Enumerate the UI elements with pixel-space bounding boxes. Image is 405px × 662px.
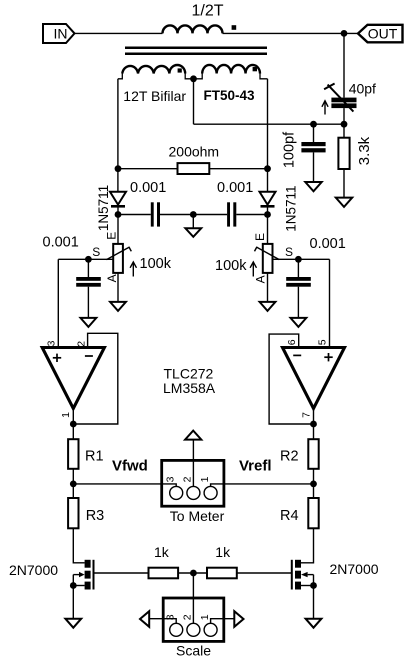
node rail left <box>115 165 122 172</box>
capacitor 100pf <box>281 124 325 182</box>
inductor 1/2T primary winding <box>163 3 224 34</box>
transformer core <box>125 48 267 54</box>
svg-text:R3: R3 <box>86 508 105 524</box>
wire feedback right <box>269 334 313 424</box>
wire right secondary branch <box>267 79 269 192</box>
svg-text:FT50-43: FT50-43 <box>204 88 256 103</box>
svg-text:1: 1 <box>60 412 72 418</box>
phase dot primary <box>232 25 237 30</box>
node output right <box>310 421 317 428</box>
wire pot A right to ground <box>267 273 269 302</box>
resistor R1 <box>68 439 103 469</box>
svg-text:0.001: 0.001 <box>217 180 253 196</box>
svg-text:S: S <box>92 245 100 259</box>
wire S left node <box>58 259 113 347</box>
wire left secondary branch <box>117 79 119 192</box>
svg-text:100k: 100k <box>140 256 172 272</box>
svg-text:1k: 1k <box>215 544 231 560</box>
wire S right node <box>273 259 330 347</box>
ground Q2 <box>306 619 322 628</box>
svg-text:A: A <box>254 275 268 283</box>
wire Q1 gate <box>94 572 149 574</box>
svg-text:E: E <box>253 233 267 241</box>
svg-text:2: 2 <box>182 614 194 620</box>
svg-text:1k: 1k <box>154 544 170 560</box>
ground 100pf <box>305 182 321 191</box>
connector Scale <box>163 598 224 659</box>
svg-text:40pf: 40pf <box>349 81 376 97</box>
svg-text:1N5711: 1N5711 <box>283 185 298 231</box>
wire center ground stem <box>192 215 194 229</box>
resistor R4 <box>280 498 319 528</box>
svg-text:1N5711: 1N5711 <box>96 185 111 231</box>
diode D2 1N5711 right <box>260 185 299 231</box>
resistor 1k right <box>207 544 237 578</box>
svg-text:0.001: 0.001 <box>310 236 346 252</box>
node Vrefl <box>310 481 317 488</box>
transistor Q1 2N7000 left <box>9 560 94 590</box>
wire detector left <box>118 214 151 216</box>
svg-text:2: 2 <box>75 341 87 347</box>
svg-text:0.001: 0.001 <box>130 180 166 196</box>
svg-text:S: S <box>285 245 293 259</box>
wire output right <box>313 409 315 440</box>
ground left S cap <box>81 318 97 327</box>
potentiometer 100k right <box>215 233 293 283</box>
node output left <box>70 421 77 428</box>
svg-text:2: 2 <box>182 476 194 482</box>
wire Vrefl to meter <box>211 484 314 487</box>
wire center tap to 40pf node <box>194 123 345 125</box>
svg-text:5: 5 <box>317 339 329 345</box>
node left detector <box>115 211 122 218</box>
connector To Meter <box>162 460 225 523</box>
node 3.3k/40pf <box>341 121 348 128</box>
ground right S cap <box>291 318 307 327</box>
node right detector <box>264 211 271 218</box>
svg-text:E: E <box>105 232 119 240</box>
svg-text:Vrefl: Vrefl <box>239 457 272 474</box>
svg-text:3: 3 <box>45 340 57 346</box>
diode D1 1N5711 left <box>96 185 126 231</box>
svg-text:1: 1 <box>199 614 211 620</box>
arrow scale right <box>234 611 243 627</box>
wire output left <box>72 409 74 440</box>
node Vfwd <box>70 481 77 488</box>
wire scale left <box>149 619 176 624</box>
svg-text:3: 3 <box>165 476 177 482</box>
wire L1 to OUT <box>223 32 359 34</box>
svg-text:R4: R4 <box>280 508 299 524</box>
wire IN to L1 <box>75 32 163 34</box>
arrow scale left <box>140 611 149 627</box>
phase dot left secondary <box>178 68 182 72</box>
svg-text:200ohm: 200ohm <box>169 144 220 160</box>
node 100pf <box>310 121 317 128</box>
label TLC272 LM358A <box>163 365 216 396</box>
wire rail right <box>209 168 267 170</box>
node center tap <box>190 75 197 82</box>
wire 1k junction <box>178 572 207 574</box>
svg-text:Scale: Scale <box>176 643 211 659</box>
svg-text:Vfwd: Vfwd <box>112 457 148 474</box>
svg-text:A: A <box>105 274 119 282</box>
transistor Q2 2N7000 right <box>292 560 379 590</box>
node Q1 source <box>70 582 77 589</box>
arrow meter supply <box>185 431 201 440</box>
svg-text:0.001: 0.001 <box>43 235 79 251</box>
wire Q1 source to ground <box>72 586 74 619</box>
node OUT branch <box>341 30 348 37</box>
node gate divider <box>190 570 197 577</box>
wire center tap down <box>193 79 195 124</box>
svg-text:100k: 100k <box>215 258 247 274</box>
ground Q1 <box>65 619 81 628</box>
wire R2 to node <box>313 469 315 498</box>
wire R3 to Q1 <box>73 528 84 563</box>
ground center detector <box>185 228 201 237</box>
capacitor 0.001 left S <box>43 235 101 318</box>
wire R1 to node <box>72 469 74 498</box>
svg-text:12T Bifilar: 12T Bifilar <box>123 88 186 104</box>
wire feedback left <box>73 333 118 424</box>
node S left <box>85 256 92 263</box>
transformer secondary right winding <box>194 65 268 79</box>
svg-text:3.3k: 3.3k <box>356 136 373 165</box>
resistor 3.3k <box>338 124 373 197</box>
wire pot A left to ground <box>117 273 119 302</box>
connector IN <box>43 24 75 43</box>
resistor R3 <box>68 498 104 528</box>
wire detector right <box>236 214 267 216</box>
phase dot right secondary <box>253 67 257 71</box>
wire left diode to pot <box>117 206 119 244</box>
wire scale pin2 <box>192 573 194 623</box>
capacitor 0.001 right S <box>286 236 346 318</box>
svg-text:R2: R2 <box>280 449 299 465</box>
node rail right <box>264 165 271 172</box>
capacitor 0.001 detector right <box>217 180 253 227</box>
connector OUT <box>358 25 403 43</box>
capacitor 40pf trimmer <box>322 33 376 124</box>
wire detector middle <box>160 214 227 216</box>
op-amp U1A left <box>42 340 104 418</box>
svg-text:6: 6 <box>286 339 298 345</box>
ground pot left <box>110 302 126 311</box>
svg-text:LM358A: LM358A <box>163 380 216 396</box>
potentiometer 100k left <box>92 232 171 283</box>
wire R4 to Q2 <box>301 528 314 563</box>
node S right <box>295 256 302 263</box>
ground 3.3k <box>336 198 352 207</box>
wire Q2 source to ground <box>313 586 315 619</box>
wire right diode to pot <box>267 206 269 244</box>
wire rail left <box>118 168 178 170</box>
wire Q2 gate <box>237 572 292 574</box>
svg-text:OUT: OUT <box>368 26 398 42</box>
ground pot right <box>260 302 276 311</box>
svg-text:2N7000: 2N7000 <box>330 561 379 577</box>
op-amp U1B right <box>283 339 345 418</box>
svg-text:IN: IN <box>54 25 68 41</box>
wire scale right <box>211 619 235 624</box>
capacitor 0.001 detector left <box>130 180 166 227</box>
svg-text:1/2T: 1/2T <box>192 3 224 20</box>
svg-text:R1: R1 <box>85 449 104 465</box>
node center detector <box>190 211 197 218</box>
svg-text:1: 1 <box>199 476 211 482</box>
svg-text:2N7000: 2N7000 <box>9 562 58 578</box>
svg-text:100pf: 100pf <box>281 131 297 168</box>
resistor 200ohm <box>169 144 220 175</box>
resistor R2 <box>280 439 319 469</box>
resistor 1k left <box>149 544 179 578</box>
wire meter pin2 <box>192 440 194 487</box>
svg-text:To Meter: To Meter <box>170 508 225 524</box>
wire Vfwd to meter <box>73 484 176 487</box>
transformer secondary left winding 12T Bifilar <box>118 65 194 79</box>
svg-text:7: 7 <box>301 412 313 418</box>
node Q2 source <box>310 582 317 589</box>
